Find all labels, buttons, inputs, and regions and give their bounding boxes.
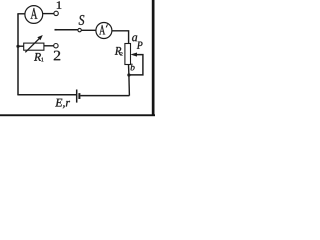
- label E,r: [55, 99, 70, 109]
- wire: selector lever free end to switch pivot: [55, 29, 78, 31]
- node: terminal 1: [54, 11, 58, 15]
- wiper P wire: [129, 55, 143, 75]
- battery short plate: [78, 93, 80, 99]
- frame: bottom rule: [0, 114, 155, 116]
- ammeter A': [96, 23, 112, 39]
- frame: right black bar: [152, 0, 155, 116]
- wire: top-left horizontal to ammeter: [17, 13, 25, 15]
- wire: left vertical bus: [17, 14, 19, 95]
- ammeter A: [25, 6, 43, 24]
- label b: [131, 64, 135, 70]
- switch S pivot: [78, 28, 81, 31]
- label a: [132, 35, 137, 41]
- label 1: [57, 1, 62, 8]
- label S: [79, 15, 85, 25]
- resistor R2 (potentiometer body): [125, 44, 131, 65]
- rheostat arrow: [25, 39, 39, 53]
- battery long plate: [76, 90, 78, 103]
- wire: bus to rheostat R1: [18, 45, 24, 47]
- label R1: [34, 53, 41, 61]
- wiper arrowhead: [130, 53, 137, 57]
- junction: wiper to bottom branch: [127, 73, 130, 76]
- label 2: [54, 51, 60, 60]
- wire: ammeter A to terminal 1: [43, 13, 54, 15]
- wire: battery to bottom right corner: [80, 95, 129, 97]
- wire: rheostat to terminal 2: [44, 45, 54, 47]
- wire: A' to potentiometer top (node a): [112, 31, 129, 44]
- wire: bottom left to battery: [17, 94, 76, 96]
- label R2: [115, 47, 121, 55]
- label P: [137, 42, 143, 49]
- node: terminal 2: [54, 44, 58, 48]
- node: lever free tip: [55, 29, 57, 31]
- junction on left bus: [16, 45, 19, 48]
- wire: potentiometer bottom to battery line: [128, 65, 131, 96]
- wire: switch to ammeter A2: [81, 29, 96, 31]
- resistor R1 (rheostat box): [24, 43, 44, 50]
